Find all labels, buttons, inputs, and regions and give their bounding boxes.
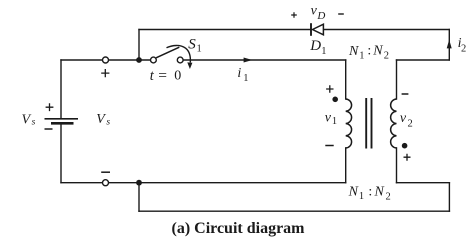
wire junction drop to bottom rail: [138, 183, 140, 212]
wire bottom-right horizontal: [397, 182, 450, 184]
transformer secondary winding v2: [391, 99, 397, 148]
arrow i1: [244, 58, 253, 63]
svg-text:i: i: [237, 66, 241, 81]
label + secondary bottom: [404, 154, 411, 161]
wire top-right horizontal: [397, 59, 450, 61]
wire secondary bottom lead: [396, 148, 398, 183]
wire primary bottom lead: [345, 148, 347, 183]
svg-text:D: D: [309, 38, 321, 54]
svg-text:s: s: [106, 117, 110, 127]
label + battery: [46, 103, 54, 111]
label - secondary top: [402, 93, 409, 95]
svg-text:N: N: [374, 184, 385, 199]
svg-text:N: N: [372, 44, 383, 59]
svg-text:S: S: [188, 37, 196, 53]
svg-text:N: N: [348, 184, 359, 199]
transformer primary winding v1: [346, 99, 352, 148]
svg-text:1: 1: [321, 46, 326, 57]
svg-text:V: V: [96, 112, 106, 127]
svg-text:v: v: [400, 111, 407, 126]
svg-text:2: 2: [461, 44, 466, 55]
wire left rail vertical: [60, 60, 62, 183]
wire right outer vertical: [448, 183, 450, 212]
diode D1: [311, 23, 323, 36]
polarity dot primary: [332, 97, 338, 103]
wire junction riser to top rail: [138, 30, 140, 61]
wire top rail: [139, 29, 449, 31]
label - primary bottom: [325, 145, 333, 147]
node junction top: [136, 57, 142, 63]
label + primary top: [326, 85, 333, 92]
battery Vs: [45, 119, 79, 124]
svg-text:=: =: [158, 67, 167, 84]
wire secondary top lead: [396, 60, 398, 99]
wire top-left horizontal: [61, 59, 150, 61]
svg-text::: :: [368, 184, 372, 199]
svg-text:0: 0: [174, 69, 181, 84]
arrow i2: [447, 40, 452, 49]
switch S1: [151, 45, 193, 69]
label - node bottom-left: [101, 171, 110, 173]
svg-text:2: 2: [384, 51, 389, 62]
svg-text:N: N: [348, 44, 359, 59]
svg-text:1: 1: [359, 191, 364, 202]
svg-text:2: 2: [386, 192, 391, 203]
wire right vertical with i2: [448, 30, 450, 61]
label - vD: [338, 13, 344, 15]
node junction bottom: [136, 180, 142, 186]
label + vD: [291, 12, 297, 18]
svg-text:1: 1: [243, 73, 248, 84]
svg-text:1: 1: [359, 50, 364, 61]
terminal upper-left: [103, 57, 109, 63]
wire bottom rail: [139, 210, 449, 212]
polarity dot secondary: [402, 143, 408, 149]
transformer core: [366, 98, 371, 149]
svg-text:1: 1: [197, 43, 202, 54]
wire primary top lead: [345, 60, 347, 99]
label + node top-left: [101, 69, 109, 77]
svg-text:v: v: [325, 110, 332, 125]
svg-text:2: 2: [408, 118, 413, 129]
svg-text::: :: [367, 44, 371, 59]
svg-text:s: s: [32, 118, 36, 128]
label - battery: [45, 128, 53, 130]
svg-text:1: 1: [332, 116, 337, 127]
svg-text:(a) Circuit diagram: (a) Circuit diagram: [171, 220, 305, 237]
terminal lower-left: [103, 180, 109, 186]
svg-text:V: V: [22, 112, 32, 127]
wire switch to primary: [183, 59, 345, 61]
wire bottom-left horizontal: [61, 182, 346, 184]
svg-text:D: D: [316, 10, 325, 22]
